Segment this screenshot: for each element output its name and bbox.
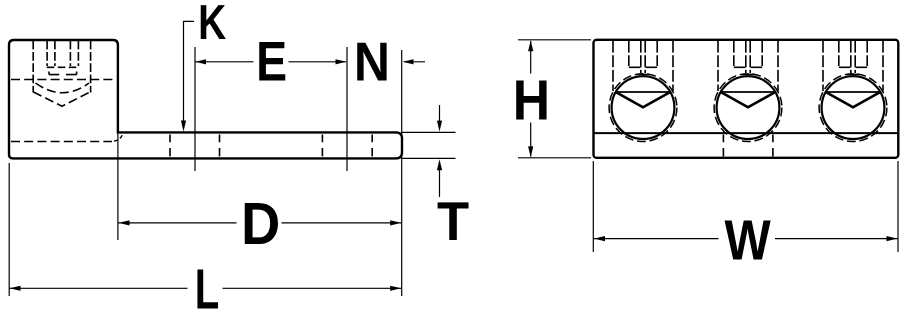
barrel 2 screw edge chord [721,91,776,93]
tapped hole bottom arc (hidden) [36,83,90,93]
svg-text:H: H [513,68,550,131]
barrel 2 screw slot right (hidden) [749,41,751,73]
part outline: lug body and tongue [9,40,402,158]
barrel 3 tapped hole wall right (hidden) [882,41,884,91]
barrel 2 screw bottom face (hidden) [734,66,746,68]
barrel 3 screw side right (hidden) [866,41,868,66]
extension line hole 2 centre (E/N) [346,47,348,171]
svg-text:D: D [241,190,280,257]
tongue/base top line [594,132,899,134]
barrel 2 group [714,41,782,142]
svg-text:L: L [195,257,220,312]
barrel 2 slot bottom (hidden) [741,73,754,75]
K leader line [184,21,195,128]
svg-text:E: E [256,30,287,93]
barrel 3 group [819,41,887,142]
tongue hole right edge in end view (hidden) [772,135,774,158]
T top outside arrow [439,105,441,121]
hidden wire bore bottom [11,141,112,143]
barrel 2 screw cone V [721,92,776,107]
svg-text:K: K [198,0,226,50]
barrel 1 group [609,41,677,142]
L dimension line left segment + arrowhead [10,287,188,289]
barrel 3 screw slot left (hidden) [850,41,852,73]
barrel 1 screw slot right (hidden) [644,41,646,73]
tongue hole 1 left edge (hidden) [169,135,171,159]
barrel 3 screw cone V [826,92,881,107]
K leader arrowhead [181,121,186,132]
T extension line bottom [402,157,456,159]
T bottom outside arrow [439,170,441,197]
barrel 3 hidden circle [819,74,887,142]
T extension line top [402,131,456,133]
D dimension line left segment + arrowhead [119,222,237,224]
L dimension line right segment + arrowhead [223,287,402,289]
screw bottom face (hidden) [47,66,79,68]
drill cone point (hidden) [33,92,90,106]
barrel 1 screw slot left (hidden) [640,41,642,73]
barrel 2 tapped hole wall left (hidden) [717,41,719,91]
H extension line bottom [518,157,591,159]
E dimension line left segment + arrowhead [195,61,254,63]
barrel 3 screw side left (hidden) [838,41,840,66]
barrel 2 screw side right (hidden) [761,41,763,66]
extension line hole 1 centre (E) [194,47,196,171]
barrel 1 tapped hole wall left (hidden) [612,41,614,91]
barrel 3 screw slot right (hidden) [854,41,856,73]
screw slot right (hidden) [69,41,71,66]
tongue hole 1 right edge (hidden) [219,135,221,159]
barrel 1 screw side right (hidden) [656,41,658,66]
barrel 3 screw bottom face (hidden) [839,66,851,68]
W extension line left [592,161,594,252]
body outline [594,40,899,158]
D dimension line right segment + arrowhead [282,222,402,224]
tongue hole 2 left edge (hidden) [321,135,323,159]
svg-text:W: W [725,208,772,271]
screw side right (hidden) [77,41,79,66]
W dimension line right segment + arrowhead [775,238,898,240]
H dimension line lower segment + arrowhead [530,123,532,157]
svg-text:T: T [437,190,469,252]
tongue hole left edge in end view (hidden) [722,135,724,158]
extension line tongue tip (N/D/L) [401,50,403,296]
extension line body left edge (L) [8,163,10,296]
W extension line right [897,161,899,252]
hidden bore break-out at tongue root [114,134,123,142]
barrel 1 slot bottom (hidden) [636,73,649,75]
screw hole wall right (hidden) [90,41,92,93]
svg-text:N: N [354,32,390,93]
screw hole wall left (hidden) [32,41,34,93]
H dimension line upper segment + arrowhead [530,41,532,74]
barrel 1 screw cone V [616,92,671,107]
barrel 1 screw side left (hidden) [628,41,630,66]
barrel 2 bore circle [717,76,780,139]
barrel 2 tapped hole wall right (hidden) [777,41,779,91]
barrel 3 bore circle [822,76,885,139]
E dimension line right segment + arrowhead [289,61,347,63]
barrel 1 screw edge chord [616,91,671,93]
tongue hole 2 right edge (hidden) [371,135,373,159]
barrel 1 hidden circle [609,74,677,142]
barrel 3 tapped hole wall left (hidden) [822,41,824,91]
barrel 3 slot bottom (hidden) [846,73,859,75]
barrel 1 bore circle [612,76,675,139]
W dimension line left segment + arrowhead [594,238,719,240]
barrel 2 screw side left (hidden) [733,41,735,66]
barrel 1 tapped hole wall right (hidden) [672,41,674,91]
extension line tongue root (D) [117,132,119,240]
barrel 3 screw edge chord [826,91,881,93]
barrel 2 screw slot left (hidden) [745,41,747,73]
screw slot left (hidden) [54,41,56,66]
screw side left (hidden) [46,41,48,66]
barrel 1 screw bottom face (hidden) [629,66,641,68]
H extension line top [518,39,591,41]
hidden wire bore top [11,79,116,81]
barrel 2 hidden circle [714,74,782,142]
N outside arrow [404,61,425,63]
screw point cup (hidden) [49,72,77,75]
